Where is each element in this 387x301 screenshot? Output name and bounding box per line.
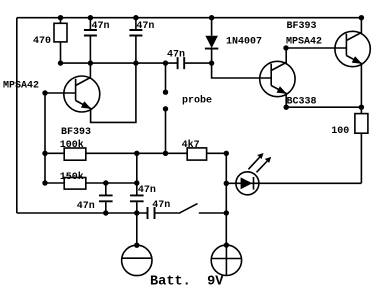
svg-text:Batt. 9V: Batt. 9V: [150, 275, 224, 290]
svg-text:BF393: BF393: [287, 21, 317, 32]
svg-text:100: 100: [331, 126, 349, 137]
svg-text:4k7: 4k7: [182, 139, 200, 151]
svg-text:47n: 47n: [77, 201, 95, 212]
svg-text:probe: probe: [182, 95, 212, 107]
svg-text:150k: 150k: [60, 171, 84, 183]
svg-text:100k: 100k: [60, 139, 84, 151]
svg-text:470: 470: [33, 36, 51, 47]
svg-text:47n: 47n: [167, 50, 185, 61]
svg-text:BC338: BC338: [287, 96, 317, 107]
svg-text:47n: 47n: [138, 185, 156, 196]
svg-text:BF393: BF393: [61, 127, 91, 138]
svg-text:MPSA42: MPSA42: [3, 80, 39, 91]
svg-text:47n: 47n: [136, 21, 154, 32]
svg-text:1N4007: 1N4007: [226, 36, 262, 47]
svg-text:MPSA42: MPSA42: [286, 36, 322, 47]
svg-text:47n: 47n: [152, 200, 170, 211]
svg-text:47n: 47n: [92, 21, 110, 32]
